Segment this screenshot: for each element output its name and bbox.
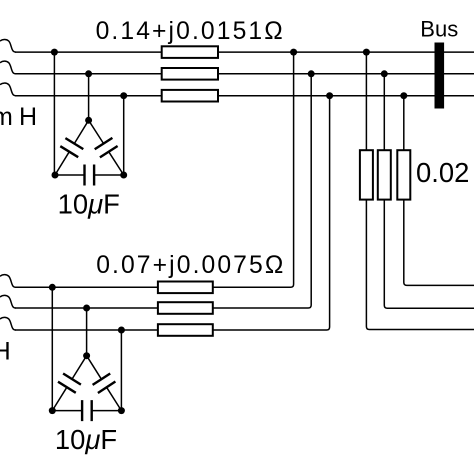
resistor R1a 0.14+j0.0151	[162, 46, 218, 58]
node C1 top vertex	[85, 117, 92, 124]
inductor L1 tail (feeder 1 phase b)	[0, 61, 16, 74]
wire riser feeder2 a to bus line a	[213, 52, 294, 287]
node C2 left vertex	[49, 407, 56, 414]
wire feeder1 phase c (left of R)	[15, 95, 162, 97]
wire riser feeder2 c to bus line c	[213, 96, 330, 330]
svg-text:0.07+j0.0075Ω: 0.07+j0.0075Ω	[96, 252, 285, 279]
junction feeder2 a tap	[49, 284, 56, 291]
wire feeder1 phase a (left of R)	[15, 51, 162, 53]
inductor L1 tail (feeder 1 phase a)	[0, 39, 16, 52]
capacitor bank C2 delta 10uF	[52, 356, 121, 421]
svg-text:10μF: 10μF	[58, 189, 120, 220]
wire tap feeder1 c to C1	[123, 96, 125, 175]
junction bus line b / load branch b	[381, 70, 388, 77]
resistor R3c 0.02 (vertical)	[397, 150, 410, 199]
junction bus line a / riser a	[290, 49, 297, 56]
svg-text:10μF: 10μF	[55, 424, 117, 455]
wire feeder1 phase b (left of R)	[15, 73, 162, 75]
inductor L2 tail (feeder 2 phase a)	[0, 275, 16, 288]
wire feeder2 phase c (left of R)	[15, 329, 158, 331]
resistor R3a 0.02 (vertical)	[360, 150, 373, 199]
inductor L2 tail (feeder 2 phase b)	[0, 295, 16, 308]
node C1 left vertex	[52, 172, 59, 179]
node C2 top vertex	[83, 352, 90, 359]
wire feeder1 phase c (right of R to edge)	[218, 95, 474, 97]
wire load branch b (down through R3b, bend right to edge)	[384, 74, 474, 308]
wire feeder2 phase b (left of R)	[15, 307, 158, 309]
node C2 right vertex	[118, 407, 125, 414]
svg-text:Bus: Bus	[420, 16, 458, 41]
wire load branch c (down through R3c, bend right to edge)	[404, 96, 474, 286]
resistor R1b 0.14+j0.0151	[162, 68, 218, 80]
resistor R2b 0.07+j0.0075	[158, 302, 213, 314]
junction feeder1 c tap	[120, 92, 127, 99]
capacitor bank C1 delta 10uF	[55, 120, 124, 185]
wire feeder1 phase b (right of R to edge)	[218, 73, 474, 75]
wire tap feeder1 b to C1	[88, 74, 90, 121]
wire riser feeder2 b to bus line b	[213, 74, 311, 308]
svg-text:m: m	[0, 103, 13, 131]
bus bar node Bus	[435, 43, 445, 109]
wire tap feeder2 b to C2	[86, 308, 88, 356]
junction bus line c / load branch c	[400, 92, 407, 99]
wire tap feeder2 a to C2	[51, 287, 53, 410]
resistor R2c 0.07+j0.0075	[158, 324, 213, 336]
junction feeder2 b tap	[83, 305, 90, 312]
svg-text:H: H	[0, 338, 11, 366]
junction bus line b / riser b	[308, 70, 315, 77]
inductor L1 tail (feeder 1 phase c)	[0, 83, 16, 96]
resistor R3b 0.02 (vertical)	[378, 150, 391, 199]
inductor L2 tail (feeder 2 phase c)	[0, 317, 16, 330]
wire load branch a (down through R3a, bend right to edge)	[366, 52, 474, 329]
junction feeder2 c tap	[118, 327, 125, 334]
junction feeder1 a tap	[51, 49, 58, 56]
wire tap feeder2 c to C2	[120, 330, 122, 411]
wire tap feeder1 a to C1	[53, 52, 55, 175]
svg-text:H: H	[19, 103, 37, 131]
svg-text:0.02: 0.02	[416, 157, 469, 188]
svg-text:0.14+j0.0151Ω: 0.14+j0.0151Ω	[96, 18, 285, 45]
junction bus line a / load branch a	[363, 49, 370, 56]
node C1 right vertex	[120, 172, 127, 179]
resistor R1c 0.14+j0.0151	[162, 90, 218, 102]
wire feeder2 phase a (left of R)	[15, 286, 158, 288]
junction bus line c / riser c	[326, 92, 333, 99]
wire feeder1 phase a (right of R to edge)	[218, 51, 474, 53]
junction feeder1 b tap	[85, 70, 92, 77]
resistor R2a 0.07+j0.0075	[158, 282, 213, 294]
